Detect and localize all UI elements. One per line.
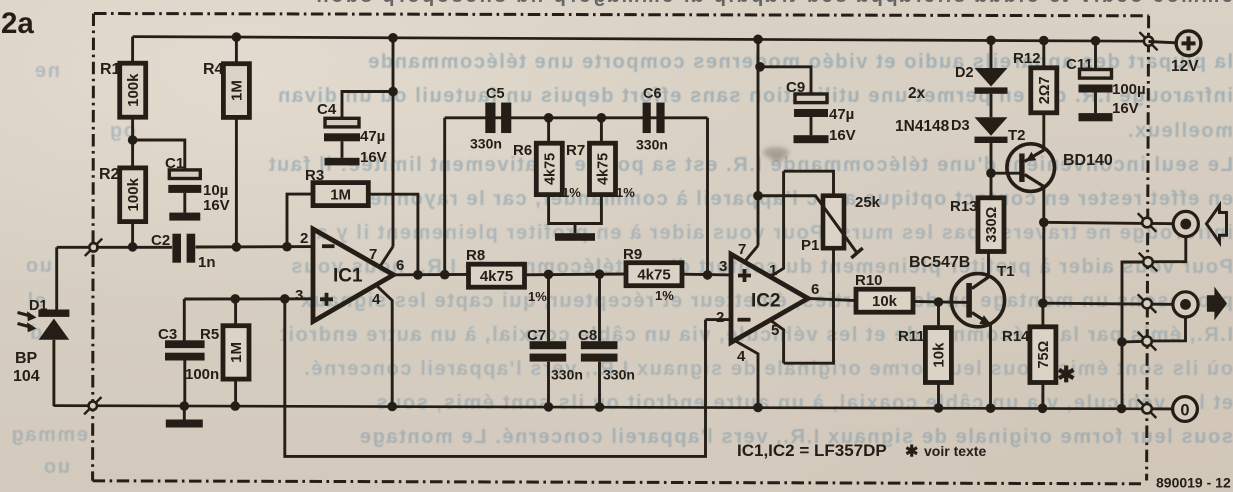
connector 0 (ground)	[1173, 397, 1198, 422]
diode D2 1N4148	[975, 68, 1008, 94]
svg-text:C2: C2	[151, 232, 170, 249]
node rail-R12	[1039, 36, 1049, 46]
svg-text:2: 2	[716, 309, 724, 326]
node R2-input	[128, 242, 138, 252]
label R8	[466, 247, 485, 264]
IC2 pin4 lead	[736, 341, 759, 408]
wire D2-D3	[990, 94, 993, 117]
figure label 2a	[1, 7, 34, 40]
label C1 value	[203, 182, 230, 214]
wire out2	[1043, 303, 1173, 304]
svg-text:330n: 330n	[470, 136, 502, 152]
label BC547B	[909, 254, 970, 271]
node rail-R4	[232, 32, 242, 42]
node sleeves join	[1117, 337, 1127, 347]
resistor R9 4k75	[626, 263, 682, 286]
label IC2 pin1	[769, 262, 777, 279]
capacitor C1 10u	[168, 170, 201, 213]
label 0	[1180, 402, 1189, 420]
terminal sleeve border	[1139, 253, 1158, 272]
node C5C6-R6	[544, 113, 554, 123]
svg-text:16V: 16V	[203, 197, 230, 214]
node R5-pin3	[230, 294, 240, 304]
svg-text:✱: ✱	[1057, 362, 1075, 387]
label IC2 pin5	[771, 322, 779, 339]
wire R10 to T1 base	[913, 301, 967, 302]
transistor T2 BD140	[1007, 144, 1055, 192]
wire sleeve step	[1122, 262, 1143, 342]
label R14	[1002, 328, 1030, 345]
svg-text:C4: C4	[317, 101, 337, 118]
node rail-IC2-branch	[753, 35, 763, 45]
capacitor C3 100n	[165, 340, 205, 360]
label C6	[643, 86, 662, 102]
capacitor C7 330n	[530, 341, 567, 361]
node R4-pin2	[232, 242, 242, 252]
svg-text:D2: D2	[955, 65, 974, 81]
label C9	[786, 79, 805, 96]
svg-text:2Ω7: 2Ω7	[1037, 76, 1053, 104]
svg-text:R10: R10	[855, 272, 883, 289]
node gnd-IC1pin4	[387, 402, 397, 412]
node gnd-R11	[934, 403, 944, 413]
wire C8 to bus	[598, 362, 601, 407]
capacitor C4 47u	[324, 118, 360, 158]
label D3	[951, 118, 970, 134]
svg-text:47µ: 47µ	[829, 106, 854, 123]
svg-text:R13: R13	[950, 198, 978, 215]
wire ground bus	[54, 406, 1147, 409]
op-amp IC2	[731, 254, 808, 342]
svg-text:100µ: 100µ	[1112, 81, 1146, 98]
photodiode D1 BP104	[38, 310, 69, 407]
wire T2 emitter to R12	[1042, 113, 1045, 151]
resistor R7 4k75	[590, 143, 616, 194]
potentiometer P1 25k	[823, 196, 844, 249]
node C5C6-R7	[597, 113, 607, 123]
label R5	[200, 326, 219, 343]
svg-text:C11: C11	[1066, 56, 1093, 73]
wire R9 to IC2 pin3	[682, 273, 731, 277]
svg-text:C5: C5	[486, 86, 505, 102]
label C2	[151, 232, 170, 249]
wire P1 bottom loop	[784, 248, 834, 363]
IC2 pin2 wire	[706, 318, 732, 321]
svg-text:R11: R11	[898, 328, 925, 345]
label 2x 1N4148	[895, 85, 950, 135]
svg-text:BC547B: BC547B	[909, 254, 970, 271]
resistor R2 100k	[120, 168, 146, 222]
node gnd-sleeve	[1117, 404, 1127, 414]
label C7 value	[551, 367, 583, 383]
svg-text:R12: R12	[1013, 50, 1041, 67]
resistor R12 2R7	[1031, 68, 1057, 113]
svg-text:C3: C3	[158, 326, 177, 343]
svg-text:T1: T1	[997, 263, 1015, 280]
svg-text:1%: 1%	[528, 289, 547, 304]
wire C7 to bus	[547, 362, 550, 407]
label C2 value	[198, 254, 216, 271]
wire out1	[1044, 222, 1174, 223]
node C4 branch	[388, 87, 398, 97]
wire rail to R12	[1042, 41, 1045, 68]
label IC2 pin3	[719, 258, 727, 275]
svg-text:12V: 12V	[1171, 58, 1199, 75]
label R10	[855, 272, 883, 289]
label IC2 pin6	[811, 281, 819, 298]
svg-text:4k75: 4k75	[480, 268, 513, 285]
IC2 pin7 lead	[745, 246, 759, 262]
wire divider to R2	[131, 140, 134, 168]
wire rail to C11	[1094, 41, 1097, 70]
wire sleeves to bus	[1121, 342, 1124, 409]
wire out2 sleeve	[1152, 317, 1186, 341]
wire T1 emitter to bus	[989, 325, 992, 409]
label IC2 pin7	[738, 241, 746, 258]
svg-text:4: 4	[372, 291, 381, 308]
node rail-V+IC1	[388, 33, 398, 43]
svg-text:2a: 2a	[1, 7, 34, 40]
terminal 12V border	[1139, 32, 1157, 50]
svg-text:3: 3	[719, 258, 727, 275]
label IC1 pin3	[295, 287, 303, 304]
label T1	[997, 263, 1015, 280]
input terminal lower (ground)	[84, 397, 101, 414]
svg-text:330n: 330n	[551, 367, 583, 383]
node gnd-C8	[595, 402, 605, 412]
label IC1 pin4	[372, 291, 381, 308]
svg-text:1M: 1M	[330, 186, 351, 203]
svg-text:7: 7	[369, 246, 377, 263]
label R8 tolerance	[528, 289, 547, 304]
svg-text:C6: C6	[643, 86, 662, 102]
svg-text:7: 7	[738, 241, 746, 258]
resistor R4 1M	[223, 64, 249, 118]
capacitor C5 330n	[485, 103, 511, 134]
resistor R6 4k75	[536, 143, 562, 194]
capacitor C2 1n	[172, 234, 195, 263]
svg-text:4k75: 4k75	[596, 153, 612, 185]
ground C4	[325, 158, 360, 166]
wire to 0 connector	[1152, 407, 1173, 410]
wire R11 top	[937, 302, 940, 328]
wire IC2 output	[808, 298, 856, 300]
svg-text:IC2: IC2	[751, 291, 781, 312]
label C4	[317, 101, 337, 118]
terminal 0 border	[1138, 399, 1157, 418]
label IC1,IC2 = LF357DP	[737, 441, 887, 460]
wire C2 to IC1 pin2	[196, 245, 314, 248]
svg-text:4k75: 4k75	[637, 266, 670, 283]
IC1 pin7 lead	[380, 247, 393, 267]
label C8	[578, 327, 597, 344]
diode D3 1N4148	[975, 117, 1008, 143]
svg-text:D1: D1	[29, 298, 48, 314]
wire R8-R9	[525, 273, 627, 277]
svg-text:25k: 25k	[855, 194, 881, 211]
svg-text:R4: R4	[203, 61, 224, 78]
svg-text:1M: 1M	[228, 342, 245, 363]
node gnd-T1em	[986, 403, 996, 413]
label C6 value	[636, 137, 668, 153]
svg-text:0: 0	[1180, 402, 1189, 420]
label C11	[1066, 56, 1093, 73]
wire R2 to input line	[131, 222, 134, 248]
wire D1 top	[57, 247, 89, 310]
svg-text:IC1: IC1	[333, 266, 363, 287]
wire divider to C1	[133, 140, 185, 170]
svg-text:C8: C8	[578, 327, 597, 344]
svg-text:C9: C9	[786, 79, 805, 96]
wire C6 right riser	[706, 118, 709, 275]
svg-text:P1: P1	[801, 237, 819, 254]
wire to 12V plug	[1149, 42, 1177, 43]
svg-text:✱: ✱	[905, 444, 918, 461]
terminal sleeve2 border	[1138, 332, 1157, 351]
svg-text:330n: 330n	[636, 137, 668, 153]
wire R14 top	[1041, 303, 1044, 327]
light arrows into D1	[18, 311, 37, 332]
wire D3 to node	[990, 143, 993, 173]
label C11 value	[1112, 81, 1146, 117]
label IC2	[751, 291, 781, 312]
svg-text:6: 6	[811, 281, 819, 298]
wire to C4	[342, 92, 393, 119]
svg-text:BP: BP	[15, 350, 38, 367]
svg-text:T2: T2	[1008, 127, 1026, 144]
label voir texte	[905, 443, 986, 461]
wire R1 to divider node	[131, 117, 134, 140]
node loop-pin3	[280, 294, 290, 304]
label IC1 pin6	[396, 257, 404, 274]
label R12	[1013, 50, 1041, 67]
op-amp IC1	[313, 229, 394, 322]
wire R5 bottom	[234, 379, 237, 406]
terminal out2 border	[1138, 294, 1157, 313]
label R6 tolerance	[562, 185, 581, 200]
svg-text:BD140: BD140	[1063, 152, 1113, 169]
wire to C9	[760, 67, 811, 94]
label R6	[513, 142, 532, 159]
label IC2 pin2	[716, 309, 724, 326]
svg-text:16V: 16V	[360, 149, 387, 166]
label R13	[950, 198, 978, 215]
label R11	[898, 328, 925, 345]
svg-text:R14: R14	[1002, 328, 1030, 345]
svg-text:R8: R8	[466, 247, 485, 264]
ground C11	[1079, 113, 1113, 121]
wire rail to R4	[235, 37, 238, 64]
label R4	[203, 61, 224, 78]
label IC2 pin4	[737, 348, 746, 365]
capacitor C11 100u	[1079, 70, 1113, 114]
node D3-R13-T2base	[986, 168, 996, 178]
wire input line to C2	[96, 246, 172, 249]
resistor R5 1M	[223, 326, 249, 379]
label C4 value	[360, 128, 387, 166]
label D1	[29, 298, 48, 314]
wire C5-C6 line	[445, 116, 708, 119]
node C3 corner	[183, 299, 186, 341]
svg-text:100k: 100k	[125, 73, 142, 107]
svg-text:890019 - 12: 890019 - 12	[1156, 475, 1231, 491]
node gnd-C7	[544, 402, 554, 412]
svg-text:330n: 330n	[603, 367, 635, 383]
open arrow out1	[1207, 206, 1227, 243]
svg-text:1M: 1M	[229, 80, 246, 101]
label BP 104	[13, 350, 40, 385]
wire R3 left to pin2	[287, 194, 313, 247]
label P1 value	[855, 194, 881, 211]
P1 wiper arm	[758, 196, 863, 258]
svg-text:R1: R1	[100, 61, 121, 78]
wire R6 R7 join	[549, 195, 602, 234]
wire +12V supply rail	[133, 37, 1147, 42]
node gnd-R5	[230, 401, 240, 411]
resistor R1 100k	[120, 63, 146, 117]
label T2	[1008, 127, 1026, 144]
wire R3 right to output	[368, 194, 418, 275]
label 12V	[1171, 58, 1199, 75]
node rail-D2	[986, 36, 996, 46]
ground C1	[169, 213, 200, 221]
svg-text:voir texte: voir texte	[924, 443, 986, 459]
capacitor C6 330n	[643, 103, 665, 134]
IC2 pin5 lead	[770, 320, 783, 363]
label D2	[955, 65, 974, 81]
svg-text:1%: 1%	[562, 185, 581, 200]
svg-text:16V: 16V	[829, 127, 856, 144]
label R7	[566, 142, 585, 159]
svg-text:4: 4	[737, 348, 746, 365]
resistor R8 4k75	[469, 264, 525, 287]
label C3	[158, 326, 177, 343]
wire IC2 V+ vertical	[757, 39, 760, 245]
wire C7 riser	[547, 274, 550, 341]
node C6riser-pin3	[703, 270, 713, 280]
label C5	[486, 86, 505, 102]
IC2 pin1 lead	[770, 171, 783, 276]
label IC1 pin7	[369, 246, 377, 263]
wire R6 top	[547, 118, 550, 143]
label C1	[165, 155, 184, 172]
svg-text:47µ: 47µ	[360, 128, 385, 145]
capacitor C9 47u	[794, 94, 828, 135]
wire T2 base	[991, 172, 1020, 175]
svg-text:3: 3	[295, 287, 303, 304]
svg-text:100n: 100n	[185, 366, 219, 383]
svg-text:R2: R2	[99, 166, 120, 183]
label R3	[305, 167, 324, 184]
node gnd-IC2pin4	[753, 403, 763, 413]
input terminal upper	[85, 239, 102, 256]
svg-text:D3: D3	[951, 118, 970, 134]
ground R6R7	[555, 233, 595, 241]
svg-text:4k75: 4k75	[543, 153, 559, 185]
node T2col-out1	[1039, 218, 1049, 228]
wire V+ vertical IC1	[392, 38, 395, 247]
wire IC1 pin3 line	[184, 297, 313, 300]
wire T2 collector	[1042, 186, 1045, 222]
IC1 pin4 lead	[377, 286, 392, 406]
svg-text:C7: C7	[527, 327, 546, 344]
wire P1 top loop	[784, 171, 834, 196]
resistor R3 1M	[313, 183, 368, 206]
wire IC1 output	[394, 273, 469, 276]
label C7	[527, 327, 546, 344]
node R8R9-C7	[544, 270, 554, 280]
label 890019-12	[1156, 475, 1231, 491]
wire R5 top	[234, 299, 237, 326]
label R7 tolerance	[616, 185, 635, 200]
wire R11 bottom	[937, 383, 940, 409]
svg-text:330Ω: 330Ω	[984, 206, 1000, 242]
node R3-pin2	[282, 242, 292, 252]
svg-text:R9: R9	[623, 246, 642, 263]
node output-C5corner	[440, 270, 450, 280]
resistor R14 75R	[1030, 327, 1056, 383]
label C3 value	[185, 366, 219, 383]
node R8R9-C8	[595, 269, 605, 279]
svg-text:R6: R6	[513, 142, 532, 159]
label IC1 pin2	[300, 230, 308, 247]
node C9 branch	[755, 62, 765, 72]
node R10-R11	[934, 297, 944, 307]
wire out1 sleeve	[1148, 237, 1186, 262]
label R9	[623, 246, 642, 263]
label R2	[99, 166, 120, 183]
wire T1 collector	[987, 252, 990, 278]
wire T2 collector lower	[1042, 222, 1045, 303]
wire C8 riser	[598, 274, 601, 341]
svg-text:2x: 2x	[908, 85, 926, 102]
svg-text:R3: R3	[305, 167, 324, 184]
phono connector out2	[1173, 292, 1198, 317]
label BD140	[1063, 152, 1113, 169]
node gnd-R14	[1038, 404, 1048, 414]
node divider R1-R2	[128, 135, 138, 145]
supply connector +12V	[1176, 31, 1201, 56]
svg-text:C1: C1	[165, 155, 184, 172]
phono connector out1	[1173, 211, 1198, 236]
svg-text:1n: 1n	[198, 254, 216, 271]
resistor R10 10k	[856, 289, 913, 312]
resistor R11 10k	[925, 328, 951, 383]
wire pin3 to bottom loop	[285, 299, 706, 457]
svg-text:IC1,IC2 = LF357DP: IC1,IC2 = LF357DP	[737, 441, 887, 460]
svg-text:10k: 10k	[931, 342, 948, 368]
label C5 value	[470, 136, 502, 152]
label R9 tolerance	[655, 288, 674, 303]
wire node to R13	[990, 173, 993, 198]
node output-R3fb	[413, 270, 423, 280]
node out2-R14	[1038, 298, 1048, 308]
label P1	[801, 237, 819, 254]
svg-text:R5: R5	[200, 326, 219, 343]
label IC1	[333, 266, 363, 287]
wire R14 bottom	[1041, 383, 1044, 409]
wire R4 to pin2 line	[235, 117, 238, 247]
svg-text:10k: 10k	[872, 293, 898, 310]
node rail-C11	[1091, 36, 1101, 46]
svg-text:1%: 1%	[655, 288, 674, 303]
terminal out1 border	[1138, 213, 1157, 232]
filled arrow out2	[1207, 287, 1227, 321]
svg-text:R7: R7	[566, 142, 585, 159]
svg-text:100k: 100k	[125, 177, 142, 211]
transistor T1 BC547B	[951, 274, 1004, 327]
svg-text:1N4148: 1N4148	[895, 118, 950, 135]
